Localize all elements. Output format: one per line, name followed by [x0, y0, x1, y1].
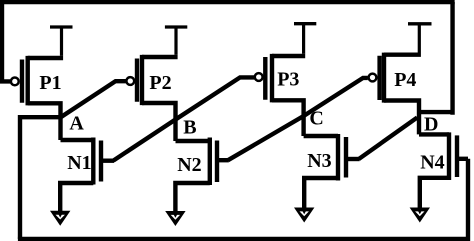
wire N2 gate to node C to P4 gate	[228, 78, 368, 160]
transistor P4 gate bubble	[369, 74, 377, 82]
wire N2 source to ground	[175, 183, 209, 217]
ground symbol under N1	[50, 211, 70, 226]
svg-text:N4: N4	[420, 151, 444, 173]
transistor N3 (NMOS) channel	[336, 134, 340, 181]
wire bottom edge	[18, 237, 468, 241]
svg-text:C: C	[309, 108, 323, 130]
transistor P4 gate bar	[377, 56, 381, 100]
transistor N2 (NMOS) channel	[208, 138, 212, 186]
wire top edge	[0, 0, 455, 4]
transistor P2 gate bubble	[126, 77, 134, 85]
VDD supply bar V3	[294, 22, 316, 25]
wire P4 drain to node D	[384, 101, 419, 135]
transistor N3 gate bar	[344, 137, 348, 178]
ground symbol under N3	[294, 208, 314, 223]
transistor P3 (PMOS) channel	[270, 54, 274, 103]
svg-text:A: A	[69, 112, 84, 134]
svg-text:N1: N1	[67, 152, 91, 174]
wire VDD stem to P4 source	[418, 24, 421, 53]
wire P1 drain to node A	[28, 103, 61, 140]
wire node C to N3 drain	[304, 134, 338, 138]
transistor P1 (PMOS) channel	[26, 56, 30, 106]
svg-text:P4: P4	[394, 69, 416, 91]
wire P3 drain to node C	[272, 100, 304, 136]
wire left edge down to P1 gate	[2, 0, 10, 81]
transistor P3 gate bar	[263, 57, 267, 100]
svg-text:D: D	[424, 114, 438, 136]
wire VDD-side feedback: node D to top rail	[419, 110, 453, 114]
wire N3 gate to node D	[359, 118, 417, 160]
svg-text:P3: P3	[277, 69, 299, 91]
wire P2 drain to node B	[142, 103, 176, 141]
transistor N1 gate bar	[99, 141, 103, 182]
svg-text:B: B	[183, 117, 196, 139]
wire N4 source to ground	[420, 178, 449, 214]
transistor P2 (PMOS) channel	[140, 55, 144, 105]
transistor P1 gate bar	[20, 60, 24, 103]
wire N2 gate stub	[217, 158, 229, 162]
transistor N1 (NMOS) channel	[91, 138, 95, 185]
wire node A to bottom rail	[20, 117, 61, 239]
svg-text:P1: P1	[39, 72, 61, 94]
transistor P1 gate bubble	[11, 78, 19, 86]
transistor N4 gate bar	[455, 135, 459, 177]
wire VDD stem to P1 source	[60, 27, 63, 56]
wire N3 gate stub	[346, 157, 360, 161]
svg-text:N2: N2	[177, 154, 201, 176]
wire right edge up	[450, 2, 454, 115]
wire N3 source to ground	[304, 178, 338, 214]
wire right lower edge up to N4 gate	[466, 159, 470, 241]
wire VDD stem to P3 source	[302, 24, 305, 54]
wire N1 source to ground	[60, 183, 93, 217]
ground symbol under N4	[410, 208, 430, 223]
transistor P4 (PMOS) channel	[382, 53, 386, 103]
VDD supply bar V2	[165, 25, 187, 28]
ground symbol under N2	[165, 211, 185, 226]
wire node B to N2 drain	[176, 139, 210, 143]
transistor N4 (NMOS) channel	[447, 132, 451, 180]
wire node D to N4 drain	[419, 132, 449, 136]
wire N1 gate stub	[101, 158, 114, 162]
transistor P3 gate bubble	[255, 73, 263, 81]
transistor P2 gate bar	[135, 59, 139, 102]
svg-text:P2: P2	[149, 72, 171, 94]
wire node A to P2 gate	[61, 81, 127, 117]
VDD supply bar V1	[50, 25, 73, 28]
wire VDD stem to P2 source	[174, 27, 177, 55]
wire node A to N1 drain	[61, 138, 94, 142]
VDD supply bar V4	[408, 22, 432, 25]
transistor N2 gate bar	[215, 141, 219, 183]
wire N4 gate stub	[457, 157, 468, 161]
svg-text:N3: N3	[307, 150, 331, 172]
wire N1 gate to node B to P3 gate	[113, 77, 254, 160]
